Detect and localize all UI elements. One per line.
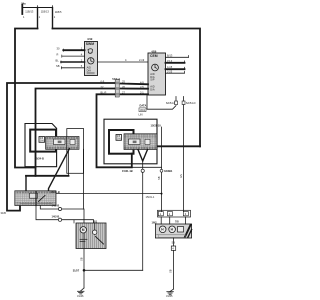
wire w3 down and across [97,94,132,167]
left gray connector block [46,137,79,150]
svg-text:11B/5: 11B/5 [55,10,62,14]
V wires from connector pins merging [138,150,148,162]
ground bottom right [170,289,174,292]
svg-text:11B/13: 11B/13 [41,9,50,13]
supply wire into sliding contact [145,145,200,147]
right gray connector block [124,134,157,150]
wire left branch down to relay area [15,29,38,168]
svg-text:2-19: 2-19 [139,58,145,62]
svg-text:4-9: 4-9 [140,81,144,85]
svg-text:SW: SW [40,139,45,143]
svg-text:36/2: 36/2 [140,108,146,112]
svg-text:3: 3 [185,212,187,216]
wire junction to right [84,269,143,271]
svg-text:15/31-1B: 15/31-1B [122,169,133,173]
left chamfered enclosure box [25,124,57,167]
svg-text:1: 1 [23,15,25,19]
wire H2 to relay [26,175,69,177]
wire CEM right pin 4 stub [166,72,185,74]
svg-text:SWM: SWM [86,42,94,46]
svg-text:11B/13: 11B/13 [25,9,34,13]
drop A from connector [68,149,70,176]
svg-text:BL: BL [56,58,60,62]
svg-text:15-3: 15-3 [167,59,173,63]
relay feed drop [25,176,27,192]
right thick component box [109,130,134,154]
svg-text:31/46: 31/46 [77,294,84,298]
svg-text:CEM: CEM [150,54,158,58]
junction dot [83,269,86,272]
relay bottom pin wire 1 to horn [40,206,84,224]
svg-text:SB: SB [172,241,176,245]
svg-text:2: 2 [169,212,171,216]
svg-text:2-1: 2-1 [140,91,144,95]
big diagonal wire from contact to relay [49,149,70,191]
inline connector circle [141,169,144,172]
svg-text:31/57: 31/57 [73,269,80,273]
svg-text:B/13: B/13 [167,53,173,57]
right enclosure box [104,119,157,164]
wire SWM pin 2 [62,55,85,57]
svg-text:1: 1 [160,212,162,216]
left thick component box [30,130,56,152]
battery feed terminal bar [21,5,23,15]
wire SWM pin 3 [61,61,85,63]
wire from 15/31-10 stub down to bar [161,127,163,212]
svg-text:8A/54-D: 8A/54-D [186,101,196,105]
svg-text:14/2-B: 14/2-B [52,214,60,218]
pin tick [52,6,54,8]
wire SWM right pin stub [98,61,149,63]
left small id box [39,137,45,143]
wire w3 right into CEM [121,93,149,95]
pin tick [37,6,39,8]
svg-text:DATA: DATA [140,104,147,108]
wire CEM right pin 3 stub [166,68,185,70]
svg-text:4-15: 4-15 [167,65,173,69]
svg-text:BL-R: BL-R [101,91,107,95]
wire from V down to junction [142,161,144,270]
right small id box [116,135,122,141]
svg-text:15/31-1: 15/31-1 [146,195,155,199]
wire CEM bottom pin to inline connector [147,95,176,109]
svg-text:2-5: 2-5 [140,85,144,89]
wire SWM pin 4 [61,67,84,69]
svg-text:SB: SB [169,269,173,273]
svg-text:6-9: 6-9 [101,79,105,83]
connector circle 33/3B1 [160,169,163,172]
svg-text:7/8: 7/8 [175,220,179,224]
clock icon in SWM [88,58,94,64]
wire right branch along top to right edge and down [53,29,201,147]
relay bottom pin wire 2 to horn [36,206,94,224]
svg-text:15/31-B: 15/31-B [51,190,60,194]
inline connector squares 8A/54 [175,97,177,102]
svg-text:2-25: 2-25 [167,69,173,73]
relay box 15/31-B [15,191,56,206]
svg-text:1: 1 [39,15,41,19]
wire from square2 down to bottom bar [183,105,185,212]
wire w2 right into CEM [121,88,149,90]
wire horns down to ground [173,238,175,246]
wire drop right [52,8,54,29]
left tall thin rect [67,129,84,174]
wire w2 down through steering column [36,89,115,176]
bar to horns pin wires [160,217,162,224]
wire horn down to junction [83,249,85,289]
svg-text:1: 1 [54,15,56,19]
svg-text:33/3B1: 33/3B1 [164,169,173,173]
svg-text:46/24-B: 46/24-B [35,157,44,161]
svg-text:SB: SB [79,257,83,261]
svg-text:31/B: 31/B [1,211,7,215]
horn icon in SWM [88,49,93,54]
bottom-right connector bar [158,210,191,217]
svg-text:3/19: 3/19 [87,37,93,41]
wire w1 right into CEM [121,83,149,86]
svg-text:SB: SB [56,64,60,68]
svg-text:SB: SB [157,176,161,180]
svg-text:D/A: D/A [150,87,155,91]
wire top rail [22,7,52,9]
wire SWM supply pin [63,49,84,51]
wire CEM right pin 1 stub [166,56,189,58]
svg-text:LIN: LIN [139,112,143,116]
svg-text:GN: GN [179,174,183,178]
horn unit box [73,220,75,223]
wire w1 to left edge and down [7,83,115,211]
wire CEM right pin 2 stub [166,62,185,64]
wire drop left [37,8,39,29]
ground bottom left [81,288,85,291]
svg-text:M: M [82,228,85,232]
svg-text:15/31-10: 15/31-10 [151,123,162,127]
svg-text:SW: SW [117,137,122,141]
svg-text:D/A: D/A [87,68,92,72]
svg-text:S/P: S/P [150,77,154,81]
svg-text:30: 30 [57,47,60,51]
svg-text:8A/54-F: 8A/54-F [166,101,176,105]
svg-text:31/55: 31/55 [166,294,173,298]
svg-text:14/2-B: 14/2-B [52,203,60,207]
svg-text:R: R [57,53,59,57]
relay horizontal wire [56,193,162,195]
svg-text:4: 4 [125,58,127,62]
wire from connector down to horn feed [82,149,84,209]
